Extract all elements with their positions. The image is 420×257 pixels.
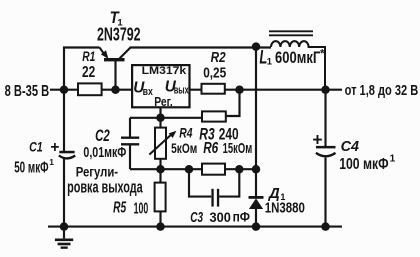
svg-text:*: * bbox=[320, 48, 325, 60]
svg-text:1N3880: 1N3880 bbox=[265, 200, 305, 217]
svg-text:вых: вых bbox=[174, 85, 190, 97]
svg-text:1: 1 bbox=[49, 157, 54, 167]
svg-text:50 мкФ: 50 мкФ bbox=[14, 160, 48, 177]
svg-text:C4: C4 bbox=[341, 139, 359, 155]
svg-text:100 мкФ: 100 мкФ bbox=[339, 156, 388, 173]
svg-text:600мкГ: 600мкГ bbox=[275, 48, 321, 67]
svg-text:+: + bbox=[312, 129, 322, 149]
svg-text:R1: R1 bbox=[82, 49, 95, 64]
svg-text:ровка выхода: ровка выхода bbox=[67, 178, 143, 196]
svg-text:2N3792: 2N3792 bbox=[97, 25, 141, 45]
svg-text:R5: R5 bbox=[113, 200, 127, 217]
svg-text:+: + bbox=[50, 139, 59, 156]
svg-text:0,25: 0,25 bbox=[203, 64, 226, 81]
svg-text:0,01мкФ: 0,01мкФ bbox=[83, 145, 126, 161]
svg-text:100: 100 bbox=[134, 200, 149, 217]
svg-text:вх: вх bbox=[143, 86, 154, 98]
svg-text:C2: C2 bbox=[95, 127, 110, 145]
svg-text:LM317k: LM317k bbox=[142, 65, 188, 77]
svg-text:R6: R6 bbox=[203, 140, 218, 157]
svg-text:пФ: пФ bbox=[233, 209, 250, 225]
svg-text:300: 300 bbox=[210, 209, 232, 225]
svg-text:R4: R4 bbox=[179, 126, 192, 141]
svg-text:от 1,8 до 32 В: от 1,8 до 32 В bbox=[345, 83, 419, 99]
svg-text:22: 22 bbox=[82, 64, 95, 81]
svg-text:C3: C3 bbox=[190, 210, 203, 226]
svg-text:15кОм: 15кОм bbox=[223, 140, 253, 157]
svg-text:8 В-35 В: 8 В-35 В bbox=[5, 83, 50, 100]
svg-text:5кОм: 5кОм bbox=[171, 141, 197, 156]
svg-text:Рег.: Рег. bbox=[154, 94, 173, 109]
svg-text:C1: C1 bbox=[29, 139, 43, 155]
svg-text:1: 1 bbox=[390, 153, 396, 164]
svg-text:1: 1 bbox=[267, 57, 273, 68]
